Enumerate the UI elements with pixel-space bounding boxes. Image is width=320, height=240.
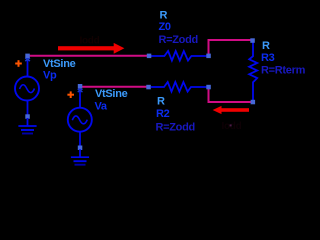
polarity plus sign SRC1	[15, 60, 22, 67]
node SRC1 top	[25, 54, 30, 59]
svg-text:Iodd: Iodd	[80, 36, 100, 47]
wire net P (SRC1 to R1)	[28, 55, 150, 57]
wire R1 right to R3 top	[209, 40, 253, 55]
svg-text:VtSine: VtSine	[95, 88, 128, 100]
node R3 top	[250, 38, 255, 43]
svg-text:R=Zodd: R=Zodd	[156, 121, 195, 133]
polarity plus sign SRC2	[67, 91, 74, 98]
ground GND2	[71, 146, 89, 165]
svg-text:R: R	[262, 40, 270, 52]
svg-text:Va: Va	[95, 100, 108, 112]
node R3 bottom	[251, 100, 256, 105]
svg-text:Vp: Vp	[43, 70, 57, 82]
ground GND1	[18, 114, 36, 133]
svg-text:VtSine: VtSine	[43, 58, 76, 70]
svg-text:R3: R3	[261, 52, 275, 64]
voltage source SRC1 VtSine Vp	[15, 56, 39, 115]
wire R2 right to R3 bottom	[209, 88, 253, 102]
resistor R2 (horizontal)	[151, 82, 207, 92]
resistor R1 Z0 (horizontal)	[151, 51, 207, 61]
pin x marker SRC2 plus pin	[78, 89, 83, 92]
node R1 right	[206, 54, 211, 59]
node SRC2 top	[78, 84, 83, 89]
svg-text:R: R	[160, 10, 168, 22]
svg-text:R=Rterm: R=Rterm	[261, 65, 306, 77]
resistor R3 Rterm (vertical)	[249, 42, 257, 100]
faint purple dot	[230, 124, 232, 126]
svg-text:R=Zodd: R=Zodd	[159, 34, 198, 46]
node R2 right	[206, 85, 211, 90]
wire net A (SRC2 to R2)	[80, 86, 149, 88]
current arrow 2 (pointing left)	[213, 106, 249, 114]
voltage source SRC2 VtSine Va	[68, 87, 92, 146]
current arrow 1 (pointing right)	[58, 43, 124, 54]
node R2 left	[146, 85, 151, 90]
svg-text:R2: R2	[156, 108, 170, 120]
svg-text:Z0: Z0	[159, 21, 171, 33]
svg-text:R: R	[157, 96, 165, 108]
pin x marker SRC1 plus pin	[25, 58, 30, 61]
node R1 left	[147, 54, 152, 59]
svg-text:Iodd: Iodd	[222, 121, 242, 132]
